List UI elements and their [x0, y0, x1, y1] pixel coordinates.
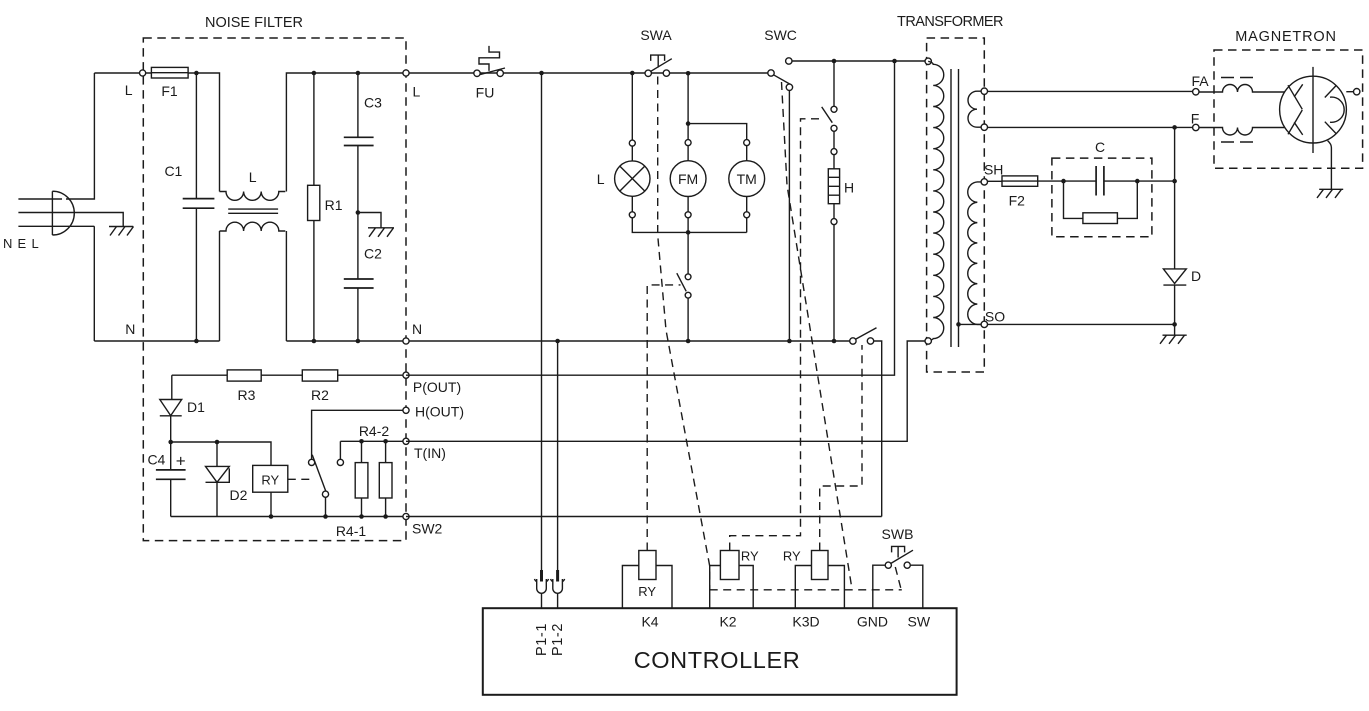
wire F1 to choke top-left [188, 73, 219, 192]
node H(OUT) [403, 407, 409, 413]
wire to heater [833, 155, 835, 169]
junction lamp branch [630, 71, 635, 76]
relay K3D terminals [795, 566, 844, 609]
svg-text:CONTROLLER: CONTROLLER [634, 647, 801, 673]
wire top rail left segment [94, 72, 151, 74]
wire left branch down from P(OUT) [171, 375, 173, 399]
lamp L [615, 146, 650, 212]
wire choke bottom-left to N rail [219, 231, 221, 341]
wire N rail left segment [94, 340, 219, 342]
lamp terminal bottom [629, 212, 635, 218]
relay coil K4 [639, 551, 656, 580]
junction C2/C3 midpoint [356, 210, 361, 215]
node P(OUT) [403, 372, 409, 378]
RF choke F [1199, 128, 1285, 143]
wire RY bottom to rail [270, 492, 272, 516]
wire P1-2 [557, 341, 559, 570]
relay K4 terminals [622, 566, 672, 609]
wire N rail right segment [286, 340, 853, 342]
wire P1-1 [541, 73, 543, 570]
relay contact blade [312, 455, 327, 494]
interlock contact blade [677, 273, 686, 291]
capacitor C2 [344, 213, 374, 342]
svg-text:H: H [844, 180, 854, 196]
wire D1 junction to RY coil [171, 442, 271, 465]
transformer core [951, 69, 959, 347]
svg-text:SO: SO [985, 309, 1005, 325]
wire H branch upper [833, 61, 835, 106]
node F [1193, 124, 1199, 130]
dashed linkage SWB [895, 567, 901, 589]
fan motor FM [670, 146, 706, 212]
svg-text:E: E [18, 236, 27, 251]
svg-text:K4: K4 [641, 614, 658, 630]
junction SWC-N rail [787, 339, 792, 344]
node L (left) [140, 70, 146, 76]
CONTROLLER box [483, 608, 957, 695]
wire T(IN) internal line [340, 440, 406, 442]
switch SWC (changeover) [768, 58, 793, 91]
wire HV bottom to core [959, 323, 982, 325]
wire F2 to C block and D branch [1038, 180, 1175, 182]
junction R4-1 top [383, 439, 388, 444]
svg-text:L: L [32, 236, 39, 251]
resistor R4-1 [379, 441, 392, 516]
TRANSFORMER dashed box [927, 38, 985, 372]
svg-text:SH: SH [984, 162, 1003, 178]
resistor R4-2 [355, 441, 368, 516]
svg-text:D2: D2 [230, 487, 248, 503]
wire P(OUT) internal rail [172, 374, 406, 376]
C block dashed box [1052, 158, 1152, 237]
junction RY bottom [269, 514, 274, 519]
svg-text:FA: FA [1191, 73, 1209, 89]
fuse F1 [151, 67, 188, 78]
HV capacitor C [1096, 166, 1104, 196]
svg-text:+: + [176, 452, 186, 471]
heater terminal top [831, 149, 837, 155]
svg-text:P1-2: P1-2 [550, 623, 566, 656]
resistor R1 [308, 73, 320, 341]
wire SW2 line to riser [406, 516, 882, 518]
contact throw terminal [337, 459, 343, 465]
svg-text:P(OUT): P(OUT) [413, 379, 461, 395]
relay coil K3D [812, 551, 829, 580]
wire FM branch [687, 73, 689, 140]
svg-text:RY: RY [741, 549, 759, 564]
wire throw terminal to T(IN) line [339, 441, 341, 459]
TM terminal top [744, 140, 750, 146]
svg-text:T(IN): T(IN) [414, 445, 446, 461]
wire P(OUT) line to riser [406, 61, 895, 375]
dashed linkage SWC to door bar [782, 82, 853, 589]
svg-text:FM: FM [678, 171, 698, 187]
fuse F2 [1002, 176, 1038, 186]
wire SW2 internal rail [171, 516, 406, 518]
capacitor C1 [183, 73, 215, 341]
junction C2 bottom [356, 339, 361, 344]
wire TM bottom [746, 218, 748, 233]
wire lamp bottom [632, 218, 746, 233]
svg-text:R3: R3 [238, 387, 256, 403]
junction FM branch [686, 71, 691, 76]
dashed linkage K4 to interlock contact [647, 285, 680, 551]
svg-text:R4-1: R4-1 [336, 523, 367, 539]
interlock contact upper (K4 relay contact) [685, 274, 691, 280]
svg-text:L: L [413, 84, 421, 100]
ground at C2/C3 [368, 228, 394, 237]
junction heater N rail [832, 339, 837, 344]
junction interlock N rail [686, 339, 691, 344]
lamp terminal top [629, 140, 635, 146]
capacitor C4 [156, 442, 186, 517]
svg-text:R4-2: R4-2 [359, 423, 390, 439]
svg-text:RY: RY [638, 584, 656, 599]
wire H(OUT) to contact [312, 410, 406, 459]
svg-text:P1-1: P1-1 [534, 623, 550, 656]
svg-text:SWA: SWA [640, 27, 672, 43]
wire D branch [1174, 127, 1176, 269]
svg-text:H(OUT): H(OUT) [415, 403, 464, 419]
svg-text:NOISE FILTER: NOISE FILTER [205, 15, 303, 31]
wire choke bottom-right to N rail [285, 231, 287, 341]
junction HV-core [956, 322, 961, 327]
FM terminal top [685, 140, 691, 146]
svg-text:C2: C2 [364, 246, 382, 262]
svg-text:RY: RY [783, 549, 801, 564]
wire SH to F2 [988, 180, 1003, 182]
wire D to SO line [1174, 285, 1176, 335]
bleed resistor [1083, 213, 1118, 224]
filament terminal FA side [981, 88, 987, 94]
svg-text:FU: FU [476, 85, 495, 101]
svg-text:SW: SW [908, 614, 931, 630]
interlock contact lower [685, 292, 691, 298]
magnetron tube [1280, 67, 1347, 153]
wire heater bottom [833, 204, 835, 219]
turntable motor TM [729, 146, 765, 212]
H switch upper contact [831, 106, 837, 112]
switch SWB [885, 546, 913, 568]
svg-text:L: L [597, 171, 605, 187]
TM terminal bottom [744, 212, 750, 218]
wire F line [988, 126, 1193, 128]
svg-text:F2: F2 [1009, 193, 1026, 209]
svg-text:D1: D1 [187, 399, 205, 415]
dashed linkage K3D to N switch [820, 345, 862, 551]
junction R4-2 top [359, 439, 364, 444]
dashed link RY to contact [288, 478, 315, 480]
junction TM split [686, 121, 691, 126]
diode D [1163, 269, 1186, 285]
wire N switch to SW2 riser [874, 341, 882, 517]
wire plug-N to bottom rail [62, 226, 94, 341]
SW terminal [910, 565, 923, 608]
junction C right [1135, 179, 1140, 184]
node T(IN) [403, 438, 409, 444]
svg-text:F: F [1191, 111, 1200, 127]
wire FM bottom to junction [687, 218, 689, 274]
wire H switch to heater [833, 131, 835, 148]
resistor R2 [302, 370, 337, 381]
svg-text:GND: GND [857, 614, 888, 630]
ground at plug [109, 227, 134, 236]
wire choke top-right to top rail [286, 73, 771, 192]
dashed linkage K2 to H switch [730, 119, 820, 551]
inductor L (common-mode choke) [220, 192, 286, 232]
wire SWC upper contact to transformer [792, 60, 927, 62]
junction C left [1061, 179, 1066, 184]
wire plug-E to ground [75, 213, 124, 227]
wire lamp branch [631, 73, 633, 140]
GND terminal [873, 565, 885, 608]
wire plug-L to top rail [66, 73, 94, 199]
MAGNETRON dashed box [1214, 50, 1363, 168]
junction D2 top [215, 440, 220, 445]
svg-text:C3: C3 [364, 95, 382, 111]
svg-text:N: N [412, 321, 422, 337]
filament terminal F side [981, 124, 987, 130]
wire midpoint to ground [358, 213, 381, 228]
svg-text:R1: R1 [325, 197, 343, 213]
heater terminal bottom [831, 219, 837, 225]
transformer primary winding [928, 61, 944, 341]
FM terminal bottom [685, 212, 691, 218]
junction D branch top [1172, 125, 1177, 130]
magnetron antenna terminal [1354, 89, 1360, 95]
pin P1-2 [551, 570, 565, 608]
terminal SO [981, 321, 987, 327]
junction H branch top [832, 59, 837, 64]
junction D1/C4 [168, 440, 173, 445]
junction P1-1 tap [539, 71, 544, 76]
fuse FU (thermal cutout) [474, 46, 505, 77]
relay contact upper (SW2 relay switch) [309, 459, 315, 465]
junction R4-2 bottom [359, 514, 364, 519]
wire magnetron case to ground [1328, 141, 1332, 190]
svg-text:C1: C1 [164, 163, 182, 179]
svg-text:L: L [249, 169, 257, 185]
ground at SO/D [1160, 335, 1187, 344]
svg-text:RY: RY [261, 473, 279, 488]
H switch lower contact [831, 125, 837, 131]
node FA [1193, 89, 1199, 95]
switch on N rail (K3D relay contact) [850, 328, 877, 344]
wire heater to N rail [833, 225, 835, 341]
svg-text:N: N [3, 236, 12, 251]
junction P(OUT) riser top [892, 59, 897, 64]
node SW2 [403, 513, 409, 519]
H switch blade [822, 107, 833, 123]
svg-text:SWB: SWB [882, 526, 914, 542]
wire magnetron to terminal [1346, 91, 1353, 93]
relay coil K2 [720, 551, 739, 580]
svg-text:C: C [1095, 139, 1105, 155]
node N (left) [403, 338, 409, 344]
svg-text:N: N [125, 321, 135, 337]
dashed linkage door bar [710, 589, 902, 591]
wire SWC lower contact down to N rail [788, 91, 790, 342]
svg-text:C4: C4 [147, 452, 165, 468]
svg-text:K2: K2 [719, 614, 736, 630]
svg-text:SWC: SWC [764, 27, 797, 43]
svg-text:K3D: K3D [792, 614, 819, 630]
wire SO line [988, 323, 1175, 325]
svg-text:R2: R2 [311, 387, 329, 403]
diode D1 [160, 400, 182, 443]
transformer filament winding [968, 91, 984, 127]
capacitor C3 [344, 73, 374, 213]
NOISE FILTER dashed box [143, 38, 406, 541]
bleed resistor loop [1064, 181, 1138, 218]
transformer primary terminal top [925, 58, 931, 64]
plug PL (mains plug) [18, 191, 74, 235]
junction R4-1 bottom [383, 514, 388, 519]
svg-text:L: L [125, 82, 133, 98]
dashed linkage SWA to door [658, 77, 710, 590]
pin P1-1 [535, 570, 549, 608]
relay K2 terminals [710, 566, 754, 609]
svg-text:D: D [1191, 268, 1201, 284]
junction D branch at HV line [1172, 179, 1177, 184]
svg-text:F1: F1 [161, 83, 178, 99]
svg-text:MAGNETRON: MAGNETRON [1235, 29, 1336, 45]
svg-text:TM: TM [737, 171, 757, 187]
svg-text:SW2: SW2 [412, 521, 443, 537]
junction R1 bottom [312, 339, 317, 344]
junction lamp/FM/TM bottom [686, 230, 691, 235]
transformer HV secondary winding [968, 182, 985, 325]
relay contact lower [322, 491, 328, 497]
ground at magnetron [1317, 189, 1343, 198]
wire FA line [988, 90, 1193, 92]
switch SWA [645, 55, 672, 76]
RF choke FA [1199, 78, 1285, 93]
resistor R3 [227, 370, 261, 381]
zener diode D2 [206, 442, 230, 517]
wire contact lower to rail [325, 497, 327, 516]
relay coil RY (noise filter) [253, 465, 288, 492]
heater H [828, 169, 839, 204]
wire TM branch [688, 124, 747, 140]
wire T(IN) line to transformer [406, 341, 927, 441]
terminal SH [981, 179, 987, 185]
junction D/SO [1172, 322, 1177, 327]
junction C1 bottom [194, 339, 199, 344]
wire interlock to N rail [687, 298, 689, 341]
junction C1 top [194, 71, 199, 76]
junction contact bottom [323, 514, 328, 519]
junction R1 top [312, 71, 317, 76]
junction C3 top [356, 71, 361, 76]
node L (right) [403, 70, 409, 76]
junction P1-2 tap [555, 339, 560, 344]
transformer primary terminal bottom [925, 338, 931, 344]
svg-text:TRANSFORMER: TRANSFORMER [897, 14, 1003, 30]
